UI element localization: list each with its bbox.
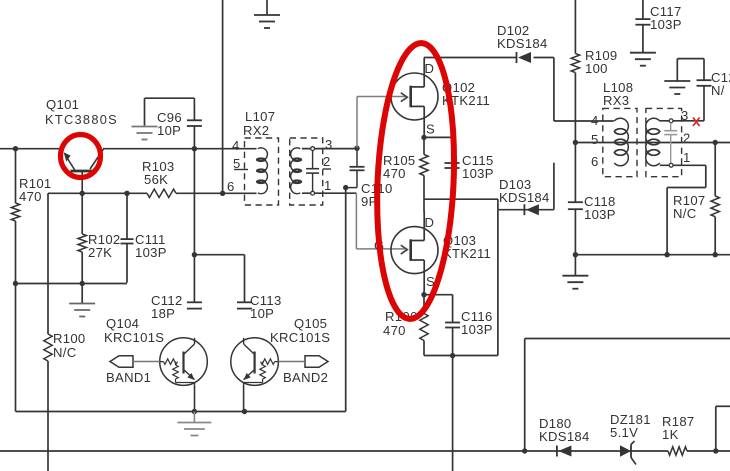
wire left rail down to band wire <box>16 284 346 412</box>
L108 internal capacitor <box>664 123 677 164</box>
node C96 junction <box>192 146 197 151</box>
svg-text:100: 100 <box>585 61 608 76</box>
wire Q102 drain to D102 to L108 pin4 <box>424 58 614 122</box>
node C118 bottom <box>573 252 578 257</box>
wire feed to C113 <box>194 255 244 303</box>
svg-text:6: 6 <box>227 179 235 194</box>
terminal circle pin1 L108 <box>669 163 673 167</box>
svg-text:4: 4 <box>232 138 240 153</box>
node R107 bus junction <box>713 252 718 257</box>
resistor R100 <box>44 334 52 361</box>
svg-text:KRC101S: KRC101S <box>270 330 330 345</box>
svg-text:470: 470 <box>383 166 406 181</box>
svg-text:470: 470 <box>19 189 42 204</box>
transformer L107 left winding box <box>245 138 279 205</box>
svg-text:27K: 27K <box>88 245 112 260</box>
resistor R187 <box>668 447 687 455</box>
capacitor C112 <box>187 301 202 303</box>
red annotation ellipse around Q102 Q103 <box>372 41 460 320</box>
red annotation circle around Q101 <box>61 135 101 178</box>
svg-text:N/C: N/C <box>673 206 696 221</box>
capacitor C96 <box>145 98 202 149</box>
pin2 stub L107 <box>323 168 331 170</box>
node box left on bus <box>522 448 527 453</box>
capacitor C120 N/C <box>677 59 711 121</box>
node pin1 bus junction <box>664 252 669 257</box>
wire Q103 drain to node <box>423 199 425 211</box>
svg-text:KDS184: KDS184 <box>497 36 548 51</box>
wire Q103 gate feed <box>356 193 406 249</box>
wire C116 node down off page <box>452 356 454 471</box>
capacitor C118 <box>568 201 583 203</box>
capacitor C110 <box>346 148 365 187</box>
transistor Q105 <box>231 338 279 412</box>
node C115 bottom <box>450 197 455 202</box>
node Q105 emitter on band wire <box>242 409 247 414</box>
svg-text:103P: 103P <box>461 322 493 337</box>
Q102 gate arrowhead <box>401 93 408 102</box>
wire bottom bus y=451 <box>0 450 730 452</box>
svg-text:56K: 56K <box>144 172 168 187</box>
wire Q103 source to node <box>423 291 425 295</box>
svg-text:2: 2 <box>683 131 691 146</box>
node R109 tap <box>573 140 578 145</box>
svg-text:KTK211: KTK211 <box>443 246 491 261</box>
diode D180 <box>556 446 558 457</box>
capacitor C117 <box>635 0 650 53</box>
node R107 top on output line <box>713 140 718 145</box>
svg-text:5.1V: 5.1V <box>610 425 638 440</box>
transformer L107 right winding box <box>290 138 323 205</box>
resistor R103 <box>147 189 176 197</box>
svg-text:6: 6 <box>591 154 599 169</box>
wire ground bus y=254.7 <box>575 254 730 256</box>
wire source node y=199.2 <box>424 198 498 200</box>
wire C96 node down to band cap feed <box>193 149 195 303</box>
transistor Q104 <box>160 338 208 412</box>
wire BAND1 to Q104 <box>133 361 160 363</box>
wire R106 bottom net <box>424 355 498 357</box>
svg-text:S: S <box>426 122 435 137</box>
svg-text:BAND2: BAND2 <box>283 370 328 385</box>
L107 secondary coil <box>291 148 302 194</box>
resistor R105 <box>420 137 428 199</box>
wire base net y=193.3 <box>48 192 257 194</box>
Q103 gate arrowhead <box>401 245 408 254</box>
svg-text:5: 5 <box>591 132 599 147</box>
svg-text:18P: 18P <box>151 306 175 321</box>
svg-text:R100: R100 <box>53 331 86 346</box>
svg-text:3: 3 <box>325 137 333 152</box>
input flag BAND1 <box>110 356 133 367</box>
svg-text:L107: L107 <box>245 109 275 124</box>
svg-text:1: 1 <box>324 178 332 193</box>
svg-text:BAND1: BAND1 <box>106 370 151 385</box>
ground top center <box>254 0 280 28</box>
terminal circle pin3 L107 <box>311 147 315 151</box>
terminal circle pin1 L107 <box>311 191 315 195</box>
svg-text:Q105: Q105 <box>294 316 327 331</box>
ground below band wire <box>178 412 212 436</box>
svg-text:Q104: Q104 <box>106 316 139 331</box>
node base-R102 junction <box>80 191 85 196</box>
svg-text:1K: 1K <box>662 427 679 442</box>
wire tap line y=142.5 <box>575 142 730 144</box>
wire L107 pin1 <box>302 192 356 194</box>
node R101 junction <box>13 146 18 151</box>
node C110 bottom junction <box>343 185 348 190</box>
capacitor C113 <box>237 301 252 303</box>
L108 secondary coil <box>646 118 660 166</box>
L107 internal capacitor <box>306 151 319 191</box>
terminal circle pin3 L108 <box>669 119 673 123</box>
red x mark <box>693 118 700 127</box>
pin5 stub L107 <box>234 169 248 171</box>
node L107 pin3 junction <box>354 146 359 151</box>
L108 primary coil <box>614 118 628 166</box>
transistor Q101 <box>64 149 104 193</box>
svg-text:470: 470 <box>383 323 406 338</box>
svg-text:103P: 103P <box>650 17 682 32</box>
svg-text:N/C: N/C <box>53 345 76 360</box>
transformer L108 left winding box <box>603 108 637 176</box>
svg-text:KRC101S: KRC101S <box>104 330 164 345</box>
svg-text:1: 1 <box>683 150 691 165</box>
svg-text:103P: 103P <box>462 166 494 181</box>
resistor R102 <box>78 193 86 303</box>
svg-text:10P: 10P <box>250 306 274 321</box>
ground at C96 <box>132 126 158 128</box>
node R101 bottom <box>13 281 18 286</box>
wire vertical bus x=222.6 from top <box>222 0 224 193</box>
ground below C117 <box>630 52 656 54</box>
svg-text:3: 3 <box>681 108 689 123</box>
box outline bottom right <box>525 339 730 452</box>
node top bus joins base net <box>220 191 225 196</box>
svg-text:103P: 103P <box>584 207 616 222</box>
svg-text:D: D <box>425 61 435 76</box>
resistor R107 <box>711 143 719 255</box>
wire left branch down x=48 to bottom <box>47 193 49 334</box>
svg-text:4: 4 <box>591 113 599 128</box>
wire C118 to ground bus <box>574 209 576 276</box>
node C116 bottom <box>450 353 455 358</box>
L107 primary coil <box>256 148 267 194</box>
transformer L108 right winding box <box>646 108 682 176</box>
svg-text:KTC3880S: KTC3880S <box>45 112 118 127</box>
svg-text:Q101: Q101 <box>46 97 79 112</box>
node Q104 emitter on band wire <box>192 409 197 414</box>
svg-text:2: 2 <box>323 154 331 169</box>
svg-text:N/: N/ <box>711 83 725 98</box>
wire gate feed up and to Q102 gate <box>357 97 407 149</box>
transistor Q102 <box>391 58 438 138</box>
svg-text:KDS184: KDS184 <box>499 190 550 205</box>
input flag BAND2 <box>305 356 328 367</box>
ground below C118 <box>562 275 588 277</box>
node box right on bus <box>713 448 718 453</box>
node R102 bottom <box>80 281 85 286</box>
wire L108 pin1 <box>660 164 706 166</box>
ground for C120 <box>664 80 690 82</box>
wire x=497.9 down to R106 net <box>497 210 499 356</box>
capacitor C111 <box>121 193 134 282</box>
svg-text:D: D <box>425 215 435 230</box>
resistor R101 <box>11 149 19 284</box>
resistor R109 <box>571 0 579 202</box>
box outline right corner <box>716 406 730 451</box>
node C111 junction <box>124 191 129 196</box>
wire L107 pin3 <box>302 148 357 150</box>
node Q103 source <box>421 292 426 297</box>
svg-text:10P: 10P <box>157 123 181 138</box>
diode D102 <box>516 52 518 63</box>
resistor R106 <box>420 295 428 356</box>
capacitor C116 <box>424 295 460 356</box>
wire BAND2 to Q105 <box>278 361 305 363</box>
svg-text:103P: 103P <box>135 245 167 260</box>
capacitor C115 <box>424 137 460 199</box>
transistor Q103 <box>391 211 438 291</box>
wire pin1 jog to bus <box>667 165 706 254</box>
wire riser x=345.7 to C110 node <box>345 188 347 412</box>
zener diode DZ181 <box>620 441 636 465</box>
wire collector net y=148.7 left segment <box>0 148 59 150</box>
wire emitter bias net y=283.5 <box>16 283 128 285</box>
wire L108 pin3 <box>660 120 704 122</box>
svg-text:RX2: RX2 <box>243 123 269 138</box>
svg-text:5: 5 <box>233 156 241 171</box>
svg-text:RX3: RX3 <box>603 93 629 108</box>
ground below R102 <box>69 303 95 305</box>
node Q102 source <box>421 135 426 140</box>
diode D103 <box>523 204 525 215</box>
svg-text:KDS184: KDS184 <box>539 429 590 444</box>
wire x=48 below R100 <box>47 361 49 471</box>
wire D103 branch <box>498 163 554 210</box>
wire collector net y=148.7 right segment to L107 pin4 <box>103 148 257 150</box>
node band cap feed split <box>192 252 197 257</box>
